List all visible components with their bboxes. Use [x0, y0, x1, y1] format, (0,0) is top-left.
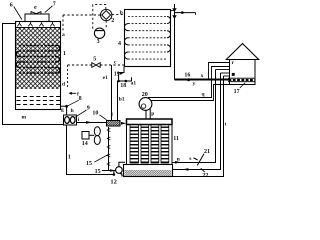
tank top hat [25, 14, 49, 21]
arrow on wire i [86, 121, 92, 124]
unit 11 column 1 [130, 125, 139, 164]
coil in tank (serpentine) [16, 46, 60, 74]
unit 11 top header [127, 119, 173, 125]
spray nozzles [17, 22, 54, 27]
unit 4 coil rows [128, 17, 167, 60]
four-way valve 2 [101, 9, 112, 20]
svg-text:19: 19 [114, 72, 120, 78]
svg-text:t: t [225, 122, 227, 128]
floor heating strip rails [228, 77, 255, 79]
svg-text:e1: e1 [103, 75, 108, 81]
node dot lower [113, 173, 116, 176]
svg-text:5: 5 [93, 56, 96, 62]
pipe C outer [173, 76, 224, 177]
pump9 drain wire [67, 125, 114, 175]
pointer 15 upper [94, 155, 108, 163]
house roof [226, 44, 258, 60]
svg-text:m: m [22, 115, 27, 121]
svg-text:g: g [61, 107, 64, 113]
v-line vertical [174, 4, 176, 80]
arrow n [175, 161, 181, 164]
arrow on wire 15 [110, 169, 115, 172]
svg-text:s: s [189, 156, 191, 162]
pump 12 [116, 167, 123, 174]
pointer 8 [68, 100, 79, 106]
svg-text:y: y [193, 81, 196, 87]
tank 1 body [16, 22, 61, 110]
tank water level dashes [17, 97, 61, 105]
svg-text:7: 7 [53, 2, 56, 8]
heat exchanger unit 4 [125, 10, 171, 67]
arrow v1 [172, 8, 176, 12]
main supply line [175, 79, 230, 81]
dashed line c with valve 5 [68, 64, 125, 66]
tank packing top line [16, 27, 60, 29]
pointer k [120, 172, 122, 174]
svg-text:h: h [71, 108, 74, 114]
svg-text:15: 15 [86, 161, 92, 167]
vent device e [31, 11, 41, 14]
house line 4 to pipe B [221, 72, 230, 74]
pump 12 outlet [119, 162, 125, 167]
pointer 22 [201, 168, 205, 172]
wire 18 horizontal with hook [118, 77, 132, 81]
house line 3 to pipe A [216, 69, 230, 71]
louver ticks [107, 128, 110, 165]
house body [230, 60, 256, 85]
arrow v2 [172, 15, 176, 19]
svg-text:3: 3 [97, 39, 100, 45]
tank packing crosshatch [16, 28, 61, 90]
unit 4 coil bends [124, 17, 170, 60]
svg-text:1: 1 [68, 154, 71, 160]
pump 9 [64, 115, 77, 125]
arrow f [69, 92, 77, 95]
left pipe loop [3, 24, 64, 125]
svg-text:20: 20 [142, 92, 148, 98]
pump 20 [139, 98, 152, 111]
house line 5 to pipe C [224, 75, 230, 77]
wire tank outlet to junction g [61, 106, 67, 115]
node dot on branch [181, 11, 184, 14]
valve 5 [92, 63, 100, 68]
louver line [108, 127, 110, 171]
unit4 top stub [171, 9, 175, 11]
svg-text:10: 10 [92, 111, 98, 117]
house line 2 to q-pipe upper [148, 67, 230, 98]
svg-text:6: 6 [10, 2, 13, 8]
svg-text:a: a [62, 32, 65, 38]
svg-text:4: 4 [118, 41, 121, 47]
wire i pump9 to header10 [77, 122, 107, 124]
dashed discharge loop [93, 5, 106, 29]
svg-text:b1: b1 [119, 97, 125, 103]
svg-text:e: e [34, 5, 37, 11]
svg-text:x: x [201, 73, 204, 79]
branch at top [175, 12, 196, 14]
svg-text:15: 15 [95, 169, 101, 175]
node 16 dot [187, 78, 190, 81]
svg-text:9: 9 [87, 106, 90, 112]
unit 11 base trough [124, 165, 173, 177]
pointer 7 [45, 6, 53, 13]
node g dot [65, 105, 68, 108]
svg-text:1: 1 [63, 51, 66, 57]
svg-text:a1: a1 [131, 81, 137, 87]
pointer 9 [75, 110, 87, 117]
fan 14 motor box [82, 132, 89, 140]
svg-text:b: b [120, 10, 123, 16]
pipe p pump20 to unit11 [146, 109, 150, 119]
svg-text:8: 8 [79, 96, 82, 102]
svg-text:2: 2 [111, 18, 114, 24]
branch end tick [195, 13, 197, 15]
dashed line a horizontal [63, 14, 101, 16]
dashed suction [105, 21, 107, 29]
arrow header10 to unit 11 [121, 122, 126, 125]
svg-text:f: f [77, 91, 79, 97]
dashed line b [112, 14, 125, 16]
node u square [232, 73, 235, 76]
fan 14 blades [94, 127, 100, 145]
dashed line a vertical [62, 15, 64, 31]
arrow on pipe B [183, 168, 189, 171]
svg-text:11: 11 [173, 136, 179, 142]
floor heating dashes 17 [229, 79, 255, 81]
header tank 10 [107, 121, 121, 127]
dashed line d vertical [67, 65, 69, 88]
unit 11 column 4 [161, 125, 169, 164]
base hatch [125, 170, 172, 176]
wire elbow from unit4 to node 18 [119, 67, 124, 82]
pointer 17 [240, 83, 245, 88]
pipe B return [173, 73, 221, 170]
fan 14 shaft [89, 134, 94, 136]
pipe A n-valve21 [173, 70, 216, 163]
unit 11 column 3 [151, 125, 159, 164]
svg-text:d: d [62, 81, 65, 87]
wire pump12 bottom connection [113, 171, 115, 175]
house bottom return to q-pipe lower [151, 85, 229, 101]
arrow 19 [120, 73, 123, 75]
svg-text:p: p [151, 111, 154, 117]
svg-text:14: 14 [82, 141, 88, 147]
valve 21 slash [197, 154, 204, 166]
node dot on a1 wire [125, 80, 128, 83]
wire 15 to pump12 [102, 170, 116, 172]
pointer 6 [14, 7, 22, 20]
svg-text:12: 12 [110, 179, 117, 185]
pointer 10 [100, 115, 107, 120]
house line 1 [209, 63, 230, 80]
unit 11 side walls [126, 125, 128, 165]
svg-text:18: 18 [120, 83, 126, 89]
wire e1 vertical to header10 [111, 65, 113, 121]
svg-text:16: 16 [184, 72, 190, 78]
unit 11 column 2 [141, 125, 149, 164]
svg-text:17: 17 [234, 89, 240, 95]
valve 21 lever [194, 158, 198, 160]
wire b1 vertical to header10 [117, 81, 119, 121]
compressor 3 [94, 28, 104, 38]
svg-text:21: 21 [204, 149, 210, 155]
node 18 dot [117, 80, 120, 83]
